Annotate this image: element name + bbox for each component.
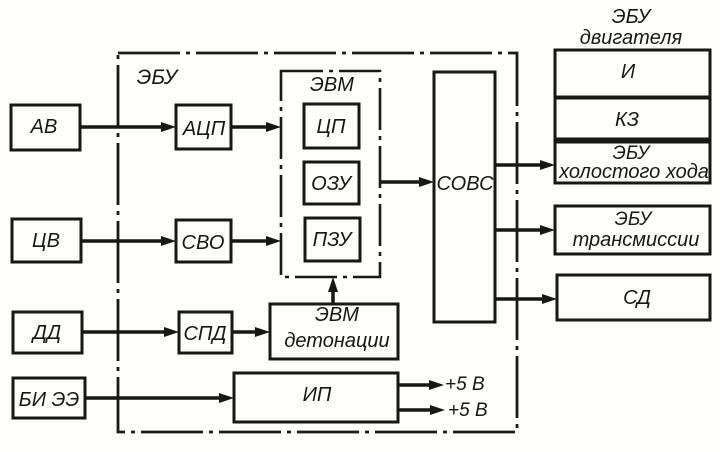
wire АВ to АЦП (80, 122, 176, 132)
wire ИП to +5 В (top) (398, 380, 444, 390)
block СПД (179, 312, 232, 353)
block ПЗУ (305, 218, 360, 261)
block АЦП (176, 105, 231, 149)
svg-text:ОЗУ: ОЗУ (311, 173, 353, 195)
wire СОВС to ЭБУ трансмиссии (495, 225, 555, 235)
block ДД (13, 312, 82, 353)
svg-text:ЭВМ: ЭВМ (310, 74, 354, 96)
svg-text:ЦП: ЦП (316, 116, 346, 138)
svg-text:+5 В: +5 В (445, 374, 485, 395)
block СВО (176, 220, 231, 262)
wire ЭВМ детонации to ЭВМ (up) (328, 277, 338, 304)
block СОВС (434, 72, 495, 322)
block ЦВ (12, 219, 81, 262)
svg-text:СД: СД (623, 287, 651, 309)
block ЭБУ холостого хода (555, 142, 710, 183)
wire СВО to ЭВМ (231, 236, 281, 246)
block СД (557, 275, 710, 320)
svg-text:СПД: СПД (183, 323, 226, 345)
svg-text:ИП: ИП (303, 384, 332, 406)
svg-text:И: И (621, 61, 636, 83)
ЭВМ group (dash-dot box) (281, 71, 380, 277)
wire АЦП to ЭВМ (231, 122, 281, 132)
block БИ ЭЭ (13, 378, 85, 418)
svg-text:холостого хода: холостого хода (558, 161, 709, 183)
wire ИП to +5 В (bottom) (398, 405, 445, 415)
block ИП (234, 373, 398, 422)
svg-text:ЭВМ: ЭВМ (315, 304, 359, 326)
block АВ (11, 105, 80, 150)
svg-text:АЦП: АЦП (182, 118, 226, 140)
wire ДД to СПД (82, 327, 179, 337)
svg-text:ЭБУ: ЭБУ (137, 66, 180, 89)
svg-text:СВО: СВО (182, 232, 225, 254)
wire СОВС to СД (495, 294, 557, 304)
svg-text:ПЗУ: ПЗУ (313, 229, 354, 251)
svg-text:БИ ЭЭ: БИ ЭЭ (19, 389, 80, 411)
block ОЗУ (304, 162, 359, 204)
block КЗ (555, 98, 710, 139)
wire БИ ЭЭ to ИП (85, 393, 234, 403)
block И (555, 50, 710, 97)
block ЦП (304, 104, 359, 148)
svg-text:двигателя: двигателя (580, 27, 683, 49)
ЭБУ enclosure (dash-dot border) (118, 53, 517, 432)
svg-text:трансмиссии: трансмиссии (573, 229, 700, 251)
svg-text:СОВС: СОВС (436, 173, 494, 195)
svg-text:ЦВ: ЦВ (32, 230, 60, 252)
svg-text:АВ: АВ (30, 116, 58, 138)
wire ЭВМ to СОВС (381, 177, 434, 187)
wire СОВС to ЭБУ холостого хода (495, 160, 555, 170)
svg-text:КЗ: КЗ (615, 109, 639, 131)
wire СПД to ЭВМ детонации (232, 327, 270, 337)
svg-text:ЭБУ: ЭБУ (615, 209, 653, 230)
title ЭБУ двигателя (580, 6, 683, 49)
svg-text:ЭБУ: ЭБУ (612, 6, 653, 28)
svg-text:+5 В: +5 В (448, 400, 488, 421)
block ЭБУ трансмиссии (555, 206, 710, 254)
block ЭВМ детонации (270, 304, 398, 359)
wire ЦВ to СВО (81, 236, 176, 246)
svg-text:детонации: детонации (284, 330, 389, 352)
svg-text:ДД: ДД (31, 322, 61, 344)
